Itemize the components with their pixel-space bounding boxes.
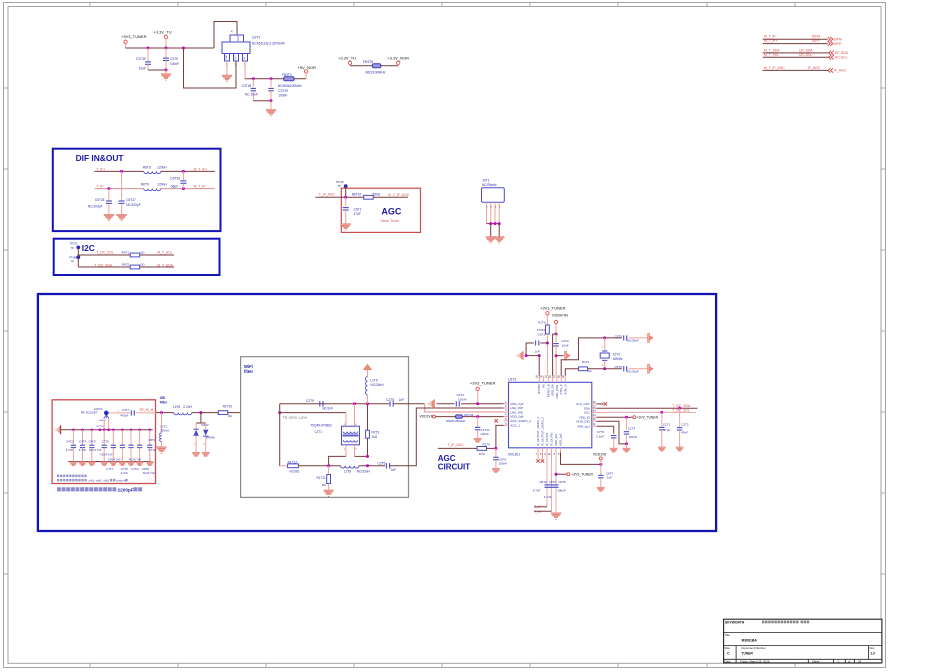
svg-text:4.7nF: 4.7nF xyxy=(121,471,129,475)
svg-text:AGC_2/GPO_2: AGC_2/GPO_2 xyxy=(510,419,531,423)
wire R1T4 to xtal xyxy=(588,368,605,370)
capacitor C8T5 xyxy=(553,484,558,486)
svg-text:U3T3: U3T3 xyxy=(508,378,516,382)
svg-text:BAV99: BAV99 xyxy=(206,436,215,440)
svg-text:RF_IN_M: RF_IN_M xyxy=(140,408,154,412)
svg-text:TP148: TP148 xyxy=(69,256,77,260)
svg-text:C2T9: C2T9 xyxy=(306,399,314,403)
ic bottom pin stubs xyxy=(537,448,539,453)
svg-text:TP: TP xyxy=(71,259,75,263)
svg-text:GND: GND xyxy=(226,54,228,59)
svg-text:Document Number: Document Number xyxy=(742,646,766,650)
connector pins xyxy=(486,202,488,223)
svg-text:120nH: 120nH xyxy=(157,182,167,186)
svg-text:1nF: 1nF xyxy=(391,468,397,472)
wire cap commons xyxy=(148,69,166,71)
ground below C6T1 xyxy=(341,224,351,229)
svg-text:1kΩ: 1kΩ xyxy=(372,435,378,439)
svg-text:+3V3_TUNER: +3V3_TUNER xyxy=(540,306,566,311)
svg-text:filter: filter xyxy=(244,369,253,374)
svg-text:NC/4.7nF: NC/4.7nF xyxy=(109,457,122,461)
decoupling capacitors C4T1..C8T1 xyxy=(72,430,74,445)
svg-text:VDD_1p2: VDD_1p2 xyxy=(577,424,590,428)
svg-text:XTAL_N: XTAL_N xyxy=(563,384,567,394)
svg-text:SKYWORTH: SKYWORTH xyxy=(725,620,745,624)
svg-text:100nF: 100nF xyxy=(480,432,489,436)
port DIFP xyxy=(828,41,833,45)
wire rail to LDO tab xyxy=(214,22,237,49)
svg-text:IF_OUTN1: IF_OUTN1 xyxy=(550,432,554,446)
wire GND_DIG route xyxy=(597,421,627,444)
node diode junction xyxy=(199,411,202,414)
svg-text:M_T_IF+: M_T_IF+ xyxy=(764,39,778,43)
wire T_IF+ out xyxy=(534,506,547,508)
svg-text:Ω/100MHz: Ω/100MHz xyxy=(287,84,303,88)
svg-text:R6T2: R6T2 xyxy=(122,262,130,266)
wire SDA out xyxy=(140,266,174,268)
block RF input box xyxy=(52,400,155,484)
wire FB3T6 out xyxy=(381,65,398,67)
wire socket legs xyxy=(103,418,105,429)
svg-text:M_T_IF-: M_T_IF- xyxy=(194,184,207,188)
svg-text:C2T5: C2T5 xyxy=(378,461,386,465)
svg-text:C8T1: C8T1 xyxy=(148,438,155,442)
svg-text:SCL: SCL xyxy=(584,411,590,415)
svg-text:GB: GB xyxy=(160,396,166,400)
svg-text:OUT: OUT xyxy=(237,35,240,41)
svg-text:VDD_1p8: VDD_1p8 xyxy=(559,433,563,446)
wire T_IF_AGC xyxy=(438,447,477,449)
svg-text:C6T27: C6T27 xyxy=(126,198,136,202)
svg-text:M_T_IF+: M_T_IF+ xyxy=(194,167,208,171)
svg-text:NC 10uF: NC 10uF xyxy=(245,93,258,97)
block DIF IN&OUT box xyxy=(53,149,221,231)
svg-text:T_I2C_SCL: T_I2C_SCL xyxy=(672,408,690,412)
svg-text:C6T26: C6T26 xyxy=(95,198,105,202)
svg-text:M_T_IF-: M_T_IF- xyxy=(764,35,777,39)
svg-text:1KΩ: 1KΩ xyxy=(479,452,486,456)
svg-text:2200pF: 2200pF xyxy=(118,488,134,493)
svg-text:C7T9: C7T9 xyxy=(131,467,138,471)
port I2C-SCL xyxy=(829,55,834,59)
capacitor C6T9 xyxy=(495,448,497,457)
svg-text:C4T9: C4T9 xyxy=(88,440,95,444)
svg-text:CIRCUIT: CIRCUIT xyxy=(438,462,471,471)
inductor L1T1 xyxy=(161,413,163,433)
ground below C6T9 xyxy=(492,468,499,472)
svg-text:C8T3: C8T3 xyxy=(539,480,547,484)
svg-text:C1T1: C1T1 xyxy=(663,422,671,426)
svg-text:60Ω/100MHz: 60Ω/100MHz xyxy=(366,70,386,74)
wire rail to transformer right pin xyxy=(354,404,356,426)
power net +3V3_TUNER bottom xyxy=(556,473,567,475)
svg-text:L1T8: L1T8 xyxy=(344,470,351,474)
svg-text:R1T10: R1T10 xyxy=(223,405,233,409)
wire caps common xyxy=(253,100,271,102)
svg-text:R1T4: R1T4 xyxy=(582,360,590,364)
svg-text:47pF: 47pF xyxy=(664,428,671,432)
capacitor C6T26 xyxy=(108,189,110,201)
svg-text:Date:: Date: xyxy=(725,659,732,663)
svg-text:4.7nF: 4.7nF xyxy=(148,448,156,452)
svg-text:+3V3_TUNER: +3V3_TUNER xyxy=(571,473,593,477)
wire to FB3T6 xyxy=(350,65,372,67)
svg-text:R6T10: R6T10 xyxy=(352,193,362,197)
svg-text:L1T5: L1T5 xyxy=(370,378,377,382)
bus entry arrow left xyxy=(60,425,61,434)
svg-text:T_IF+: T_IF+ xyxy=(96,167,105,171)
svg-text:VDD1V8: VDD1V8 xyxy=(419,415,432,419)
block I2C box xyxy=(54,239,220,275)
svg-text:NC/4.7nF: NC/4.7nF xyxy=(129,457,142,461)
svg-text:+3V3_TUNER: +3V3_TUNER xyxy=(470,381,496,386)
capacitor C6T27 xyxy=(121,171,123,201)
svg-text:Friday, March 25, 2016: Friday, March 25, 2016 xyxy=(740,659,770,663)
capacitor C8T3 xyxy=(544,484,549,486)
svg-text:10uF: 10uF xyxy=(139,66,146,70)
title block row4 dividers xyxy=(735,659,737,663)
offpage arrow xtal lower xyxy=(647,364,649,373)
ground IF caps xyxy=(551,513,561,518)
ground below C1T3 xyxy=(623,448,630,452)
ground below C3T29 xyxy=(270,101,272,110)
svg-text:NC/0Ω: NC/0Ω xyxy=(289,470,299,474)
svg-text:Sheet: Sheet xyxy=(812,659,820,663)
svg-text:NC/Shield: NC/Shield xyxy=(482,183,497,187)
svg-text:R6T6: R6T6 xyxy=(143,165,151,169)
ground connector left xyxy=(486,237,496,242)
svg-text:bottom: bottom xyxy=(116,479,126,483)
wire main to transformer xyxy=(280,412,346,414)
svg-text:OUT: OUT xyxy=(235,54,237,59)
svg-text:C7T7: C7T7 xyxy=(106,467,113,471)
capacitor C3T45 xyxy=(252,79,254,87)
svg-text:M_T_SCL: M_T_SCL xyxy=(157,250,172,254)
svg-text:C3T49: C3T49 xyxy=(136,57,146,61)
title block row3 dividers xyxy=(735,646,737,660)
svg-text:IF_OUTPUT_2/GPO_2: IF_OUTPUT_2/GPO_2 xyxy=(541,417,545,446)
svg-text:M_T_IF_AGC: M_T_IF_AGC xyxy=(388,193,409,197)
svg-text:C5T1: C5T1 xyxy=(538,332,546,336)
capacitor C4T7 xyxy=(109,412,131,414)
svg-text:+3V3_TUNER: +3V3_TUNER xyxy=(637,416,659,420)
wire SDA xyxy=(78,266,130,268)
bus entry arrow VDD_3p3 xyxy=(429,399,434,408)
svg-text:M_T_SDA: M_T_SDA xyxy=(764,48,780,52)
svg-text:FB3T3: FB3T3 xyxy=(282,73,292,77)
capacitor C1T2 on SDA xyxy=(679,408,681,427)
regulator U3T1 xyxy=(230,35,244,42)
svg-text:120nH: 120nH xyxy=(157,165,167,169)
wire IF_OUTN riser xyxy=(551,453,553,512)
svg-text:VDD1V8: VDD1V8 xyxy=(593,453,606,457)
svg-text:+3.3V_NOR: +3.3V_NOR xyxy=(387,56,409,61)
resistor R2T3 xyxy=(367,404,369,430)
svg-text:R1T9: R1T9 xyxy=(483,442,491,446)
note Chinese capacitor suggestion xyxy=(57,487,61,491)
wire R1T9 out xyxy=(487,447,496,449)
svg-text:AS: AS xyxy=(541,384,545,388)
wire T_IF- out xyxy=(534,510,552,512)
wire SCL xyxy=(597,411,697,413)
ferrite bead FB3T6 xyxy=(372,64,380,68)
svg-text:47nF: 47nF xyxy=(354,212,361,216)
svg-text:NC/4.7nF: NC/4.7nF xyxy=(100,453,113,457)
svg-text:M_T_SCL: M_T_SCL xyxy=(764,53,779,57)
wire bottom rail xyxy=(298,465,340,467)
capacitor C1T1 on SCL xyxy=(661,412,663,427)
svg-text:AGC_1: AGC_1 xyxy=(510,424,520,428)
svg-text:470pF: 470pF xyxy=(120,413,129,417)
wire VDD_IO to +3V3 xyxy=(597,416,633,418)
wire IF- line xyxy=(95,188,144,190)
grounds below caps xyxy=(70,462,77,466)
inductor L1T5 xyxy=(363,364,371,369)
svg-text:C4T3: C4T3 xyxy=(79,440,86,444)
svg-text:560Ω: 560Ω xyxy=(373,193,381,197)
svg-text:T_IF_AGC: T_IF_AGC xyxy=(319,193,336,197)
svg-text:X2T2: X2T2 xyxy=(613,352,621,356)
port DIFM xyxy=(828,37,833,41)
no-connect pin5 xyxy=(495,419,498,422)
svg-text:C4T7: C4T7 xyxy=(122,408,130,412)
capacitor C6T1 xyxy=(345,197,347,206)
svg-text:TUNER: TUNER xyxy=(742,651,754,655)
wire LDO output loop xyxy=(184,48,237,88)
svg-text:T_IF-: T_IF- xyxy=(534,510,542,514)
block WiFi filter box xyxy=(241,357,409,498)
svg-text:330nH: 330nH xyxy=(160,429,169,433)
svg-text:I2C-SDA: I2C-SDA xyxy=(835,51,849,55)
svg-text:NC/33nH: NC/33nH xyxy=(370,383,384,387)
svg-text:I2C: I2C xyxy=(82,243,95,253)
svg-text:1uF: 1uF xyxy=(535,349,540,353)
wire VDDIFIN riser xyxy=(555,324,557,334)
svg-text:2.2nF: 2.2nF xyxy=(596,434,604,438)
node rail junctions xyxy=(147,47,150,50)
svg-text:C4T1: C4T1 xyxy=(66,440,73,444)
wire ground rail xyxy=(68,461,151,463)
svg-text:M_T_SDA: M_T_SDA xyxy=(157,263,173,267)
ground below C1T13 xyxy=(474,438,481,442)
svg-text:R6T9: R6T9 xyxy=(141,182,149,186)
wire AGC_1 hook xyxy=(496,425,504,448)
svg-text:1.0: 1.0 xyxy=(871,651,876,655)
svg-text:56pF: 56pF xyxy=(171,184,178,188)
svg-text:T_IF-: T_IF- xyxy=(96,185,104,189)
svg-text:R1T5: R1T5 xyxy=(538,321,546,325)
svg-text:VDD_GA: VDD_GA xyxy=(550,384,554,396)
ground below D3T2 right xyxy=(202,452,209,456)
capacitor C3T9 xyxy=(165,48,167,58)
svg-text:C6T1: C6T1 xyxy=(354,207,362,211)
wire transformer bottom right xyxy=(354,445,356,457)
svg-text:100nF: 100nF xyxy=(629,435,638,439)
bus exit arrow right top xyxy=(556,355,563,357)
svg-text:C7T6: C7T6 xyxy=(102,440,109,444)
svg-text:4.7nF: 4.7nF xyxy=(66,448,74,452)
resistor R1T5 xyxy=(546,315,548,325)
svg-text:IF_AGC: IF_AGC xyxy=(834,69,847,73)
ferrite R6T34 xyxy=(436,416,456,418)
svg-text:M_T_IF_AGC: M_T_IF_AGC xyxy=(764,66,785,70)
svg-text:IF_OUTP1: IF_OUTP1 xyxy=(545,432,549,446)
svg-text:DIF IN&OUT: DIF IN&OUT xyxy=(76,153,125,163)
svg-text:DIFM: DIFM xyxy=(812,35,820,39)
wire left riser xyxy=(279,404,281,466)
svg-text:DIFP: DIFP xyxy=(834,42,842,46)
svg-text:M3081BA: M3081BA xyxy=(742,638,758,642)
wire RF bus xyxy=(61,429,153,431)
wire rail exit to LNA_INN xyxy=(393,403,424,405)
svg-text:I2C-SDA: I2C-SDA xyxy=(799,48,813,52)
svg-text:4.7nF: 4.7nF xyxy=(544,495,552,499)
svg-text:Clean Tuner: Clean Tuner xyxy=(380,219,400,223)
svg-text:R6T1: R6T1 xyxy=(122,250,130,254)
svg-text:1uF: 1uF xyxy=(607,475,612,479)
svg-text:75 ohm Line: 75 ohm Line xyxy=(282,415,307,420)
no-connect CLK_OUT xyxy=(597,403,604,405)
svg-text:Title: Title xyxy=(725,633,731,637)
wire AGC in xyxy=(315,196,363,198)
svg-text:4.7nF: 4.7nF xyxy=(533,489,541,493)
wire VDD_1p8 riser xyxy=(561,453,601,465)
svg-text:1nF: 1nF xyxy=(399,398,405,402)
svg-text:NC/1nF: NC/1nF xyxy=(322,407,333,411)
svg-text:R2T3: R2T3 xyxy=(372,430,380,434)
ic top pin stubs xyxy=(538,376,540,383)
svg-text:+3.3V_TU: +3.3V_TU xyxy=(338,56,356,61)
svg-text:50ohm: 50ohm xyxy=(99,420,106,422)
wire xtal lower net xyxy=(565,369,578,376)
svg-text:T5Q45-970862: T5Q45-970862 xyxy=(310,424,332,428)
wire testpoint stem xyxy=(77,247,79,267)
svg-text:C3T29: C3T29 xyxy=(278,89,288,93)
capacitor C7T5 xyxy=(611,435,617,437)
block main tuner box xyxy=(38,294,716,531)
wire top bus left xyxy=(526,355,540,357)
svg-text:C8T4: C8T4 xyxy=(549,480,557,484)
wire main RF into box xyxy=(278,411,281,414)
svg-text:C6T33: C6T33 xyxy=(170,176,180,180)
svg-text:CLK_OUT: CLK_OUT xyxy=(576,402,590,406)
ground below C3T9 xyxy=(165,70,167,74)
svg-text:100nF: 100nF xyxy=(170,62,179,66)
svg-text:100nF: 100nF xyxy=(458,398,467,402)
wire IF+ line xyxy=(95,170,144,172)
capacitor C1T3 xyxy=(626,417,628,430)
ground connector right xyxy=(494,237,504,242)
svg-text:U3T1: U3T1 xyxy=(252,36,260,40)
ground below R1T11 xyxy=(324,490,334,495)
svg-text:4.7nF: 4.7nF xyxy=(79,448,87,452)
ferrite bead FB3T3 xyxy=(284,77,294,81)
svg-text:C1T3: C1T3 xyxy=(628,426,636,430)
wire SDA xyxy=(597,407,698,409)
port I2C-SDA xyxy=(829,51,834,55)
svg-text:T_I2C_SDA: T_I2C_SDA xyxy=(672,404,691,408)
svg-text:TP148: TP148 xyxy=(336,180,344,184)
svg-text:NC/33nH: NC/33nH xyxy=(357,470,371,474)
svg-text:NC/75Ω: NC/75Ω xyxy=(97,426,105,428)
svg-text:CAD_XTAL: CAD_XTAL xyxy=(555,384,559,399)
ground LDO pin 1 xyxy=(226,61,228,75)
svg-text:600Ω/100MHz: 600Ω/100MHz xyxy=(446,419,466,423)
wire bus to grounds xyxy=(490,224,492,237)
ic left pin stubs xyxy=(504,403,509,405)
svg-text:16MHz: 16MHz xyxy=(613,357,624,361)
ground below C8T2 xyxy=(597,487,604,491)
svg-text:filter: filter xyxy=(160,400,168,404)
svg-text:I2C-SCL: I2C-SCL xyxy=(835,56,848,60)
note Chinese line2 xyxy=(57,479,59,482)
svg-text:NC/4.7nF: NC/4.7nF xyxy=(143,471,156,475)
svg-text:FB3T6: FB3T6 xyxy=(363,60,373,64)
ground below C1T1 xyxy=(658,447,665,451)
capacitor C3T49 xyxy=(147,48,149,62)
svg-text:T_IF_AGC: T_IF_AGC xyxy=(448,443,465,447)
wire top rail xyxy=(280,403,390,405)
svg-text:of: of xyxy=(848,659,851,663)
ic right pin stubs xyxy=(592,403,597,405)
svg-text:100nF: 100nF xyxy=(499,461,508,465)
capacitor C3T29 xyxy=(270,79,272,87)
ground below C6T26 xyxy=(104,214,114,219)
capacitor C1T13 xyxy=(477,417,479,428)
svg-text:c4t1- c4t1- c8t1: c4t1- c4t1- c8t1 xyxy=(89,479,110,483)
svg-text:NCA51113(-3.3)TRxHF: NCA51113(-3.3)TRxHF xyxy=(252,42,285,46)
port IF_AGC xyxy=(828,68,833,72)
svg-text:J6T1: J6T1 xyxy=(482,179,489,183)
svg-text:VDD_3p3: VDD_3p3 xyxy=(554,433,558,446)
svg-text:IF_OUTPUT_1/GPO_1: IF_OUTPUT_1/GPO_1 xyxy=(536,417,540,446)
wire SCL xyxy=(78,254,130,256)
svg-text:T_I2C_SCL: T_I2C_SCL xyxy=(96,251,114,255)
svg-text:NC/100pF: NC/100pF xyxy=(88,205,103,209)
offpage arrow xtal upper xyxy=(647,333,649,342)
svg-text:+3V3_TUNER: +3V3_TUNER xyxy=(121,34,147,39)
svg-text:C3T45: C3T45 xyxy=(242,84,252,88)
capacitor C8T2 xyxy=(600,464,602,475)
svg-text:470KΩ: 470KΩ xyxy=(537,328,547,332)
wire AGC out xyxy=(373,196,408,198)
capacitor C8T4 xyxy=(549,484,554,486)
svg-text:Rev: Rev xyxy=(870,646,876,650)
wire IF_OUTP riser xyxy=(546,453,548,507)
svg-text:2.2nH: 2.2nH xyxy=(183,405,192,409)
svg-text:NC/100pF: NC/100pF xyxy=(126,203,141,207)
svg-text:MXL601: MXL601 xyxy=(508,452,520,456)
svg-text:VDDIFIN: VDDIFIN xyxy=(552,313,568,318)
svg-text:100nF: 100nF xyxy=(557,489,566,493)
svg-text:C3T9: C3T9 xyxy=(170,57,178,61)
svg-text:DIFP: DIFP xyxy=(812,39,820,43)
svg-text:C8T5: C8T5 xyxy=(558,480,566,484)
svg-text:47pF: 47pF xyxy=(681,430,688,434)
svg-text:100nF: 100nF xyxy=(278,93,287,97)
node RF bus junctions xyxy=(72,429,75,432)
wire filter out loop to LNA_INP xyxy=(390,408,504,466)
svg-text:NC/33pF: NC/33pF xyxy=(627,338,639,342)
block AGC box xyxy=(341,188,420,232)
wire transformer bottom left xyxy=(345,445,347,457)
ground below C1T2 xyxy=(676,447,683,451)
note Chinese line1 xyxy=(57,475,59,478)
svg-text:IF_AGC: IF_AGC xyxy=(808,66,821,70)
svg-text:L2T6: L2T6 xyxy=(173,405,180,409)
wire VDD_1p2 route xyxy=(597,426,614,434)
svg-text:24: 24 xyxy=(858,659,862,663)
